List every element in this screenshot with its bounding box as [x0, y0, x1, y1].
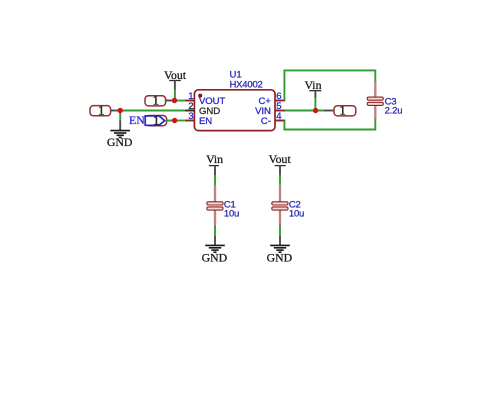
- net label Vout (top): [164, 68, 187, 90]
- wire junction D to right connector: [324, 110, 334, 112]
- svg-text:1: 1: [98, 103, 105, 118]
- wire EN flag to junction C: [166, 120, 175, 122]
- pin 4 stub: [275, 111, 285, 122]
- pin 1 stub: [185, 91, 195, 102]
- junction node C: [172, 118, 177, 123]
- pin 5 stub: [275, 101, 285, 112]
- svg-text:GND: GND: [267, 250, 293, 264]
- connector box right (net VIN): [334, 103, 356, 118]
- ground symbol C2: [270, 245, 290, 252]
- ground symbol left: [110, 131, 130, 138]
- svg-text:C-: C-: [261, 116, 271, 127]
- wire segment to gnd symbol: [214, 236, 216, 245]
- svg-text:3: 3: [188, 111, 193, 122]
- junction node D: [313, 108, 318, 113]
- wire segment to gnd symbol C2: [279, 236, 281, 245]
- capacitor C2: [272, 185, 288, 225]
- svg-text:Vout: Vout: [269, 152, 292, 166]
- svg-text:2.2u: 2.2u: [385, 106, 403, 117]
- svg-text:EN: EN: [199, 116, 212, 127]
- svg-text:10u: 10u: [224, 208, 239, 219]
- svg-text:4: 4: [276, 111, 282, 122]
- pin 6 stub: [275, 91, 285, 102]
- wire connector to junction A: [166, 100, 175, 102]
- pin 3 stub: [185, 111, 195, 122]
- svg-text:1: 1: [153, 113, 160, 128]
- capacitor C1: [207, 185, 223, 225]
- wire C2 to ground: [279, 225, 281, 236]
- wire Vout label drop: [174, 90, 176, 101]
- svg-text:1: 1: [153, 93, 160, 108]
- pin 2 stub: [185, 101, 195, 112]
- wire pin 5 to junction D: [285, 110, 323, 112]
- wire junction B to pin 2: [120, 110, 185, 112]
- svg-text:Vout: Vout: [164, 68, 187, 82]
- connector box EN: [146, 116, 167, 126]
- EN net flag pentagon: [145, 113, 165, 128]
- junction node A: [172, 98, 177, 103]
- svg-text:GND: GND: [202, 250, 228, 264]
- connector box left (net GND): [90, 103, 111, 118]
- net label Vin (bottom C1): [206, 152, 223, 175]
- net label Vin (right): [305, 78, 322, 98]
- net label Vout (bottom C2): [269, 152, 292, 175]
- IC U1 HX4002 body: [194, 90, 275, 131]
- junction node B: [118, 108, 123, 113]
- wire left box to junction B: [111, 110, 120, 112]
- ground symbol C1: [205, 245, 225, 252]
- svg-text:Vin: Vin: [206, 152, 223, 166]
- wire junction C to pin 3: [175, 120, 185, 122]
- svg-text:10u: 10u: [289, 208, 304, 219]
- svg-text:HX4002: HX4002: [230, 79, 263, 90]
- wire Vin label drop: [314, 98, 316, 110]
- wire junction A to pin 1: [174, 100, 184, 102]
- wire junction B down: [119, 111, 121, 121]
- wire Vout to C2: [279, 175, 281, 185]
- svg-text:GND: GND: [107, 135, 133, 149]
- wire C1 to ground: [214, 225, 216, 236]
- connector P? box top (net VOUT): [145, 93, 166, 108]
- wire pin 6 to C3 top rail: [284, 70, 375, 100]
- wire pin 4 to C3 bottom rail: [284, 119, 375, 130]
- svg-text:EN: EN: [129, 113, 145, 127]
- wire to ground: [119, 120, 121, 130]
- wire Vin to C1: [214, 175, 216, 185]
- svg-text:1: 1: [339, 103, 346, 118]
- capacitor C3: [367, 81, 383, 119]
- svg-text:Vin: Vin: [305, 78, 322, 92]
